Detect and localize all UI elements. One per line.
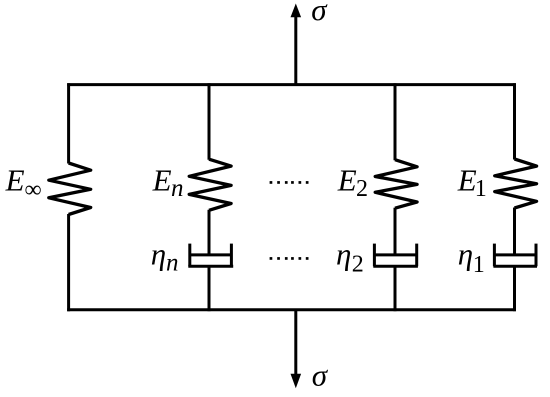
label E_n [152, 163, 184, 203]
svg-text:1: 1 [475, 176, 487, 202]
wire branch n middle [208, 210, 211, 255]
wire branch 2 upper [394, 83, 397, 160]
wire bottom rail [67, 308, 516, 311]
label E_1 [457, 163, 487, 202]
svg-text:η: η [151, 237, 166, 272]
svg-text:E: E [457, 163, 477, 198]
label E_2 [337, 163, 368, 203]
dashpot eta_n [188, 244, 233, 267]
stress arrow top (sigma) [291, 4, 302, 85]
wire right rail lower [513, 266, 516, 311]
wire branch 2 middle [394, 208, 397, 255]
svg-text:η: η [458, 237, 473, 272]
svg-text:n: n [166, 250, 179, 277]
dots between branches upper row [270, 181, 309, 184]
svg-text:n: n [171, 175, 184, 202]
wire left rail upper [67, 83, 70, 163]
svg-text:2: 2 [352, 251, 364, 277]
spring E_infinity [49, 163, 91, 215]
dashpot eta_1 [493, 244, 537, 267]
dots between branches lower row [270, 257, 309, 260]
label sigma top [311, 0, 328, 27]
stress arrow bottom (sigma) [291, 310, 302, 389]
label eta_n [151, 237, 179, 277]
label eta_1 [458, 237, 485, 278]
svg-text:E: E [152, 163, 172, 198]
label eta_2 [336, 237, 364, 278]
wire branch n lower [208, 266, 211, 311]
label sigma bottom [312, 358, 329, 393]
svg-text:E: E [5, 163, 25, 198]
svg-text:1: 1 [473, 252, 485, 278]
svg-text:E: E [337, 163, 357, 198]
wire left rail lower [67, 214, 70, 311]
wire right rail upper [513, 83, 516, 159]
wire branch 2 lower [394, 266, 397, 311]
svg-text:2: 2 [356, 176, 368, 202]
wire branch n upper [208, 83, 211, 160]
svg-text:σ: σ [311, 0, 328, 27]
dashpot eta_2 [373, 244, 418, 267]
spring E_2 [375, 160, 417, 209]
label E_infinity [5, 163, 42, 204]
svg-text:∞: ∞ [25, 177, 42, 203]
wire top rail [67, 83, 516, 86]
spring E_1 [495, 159, 537, 208]
wire right rail middle [513, 208, 516, 255]
svg-text:σ: σ [312, 358, 329, 393]
svg-text:η: η [336, 237, 351, 272]
spring E_n [189, 159, 231, 210]
